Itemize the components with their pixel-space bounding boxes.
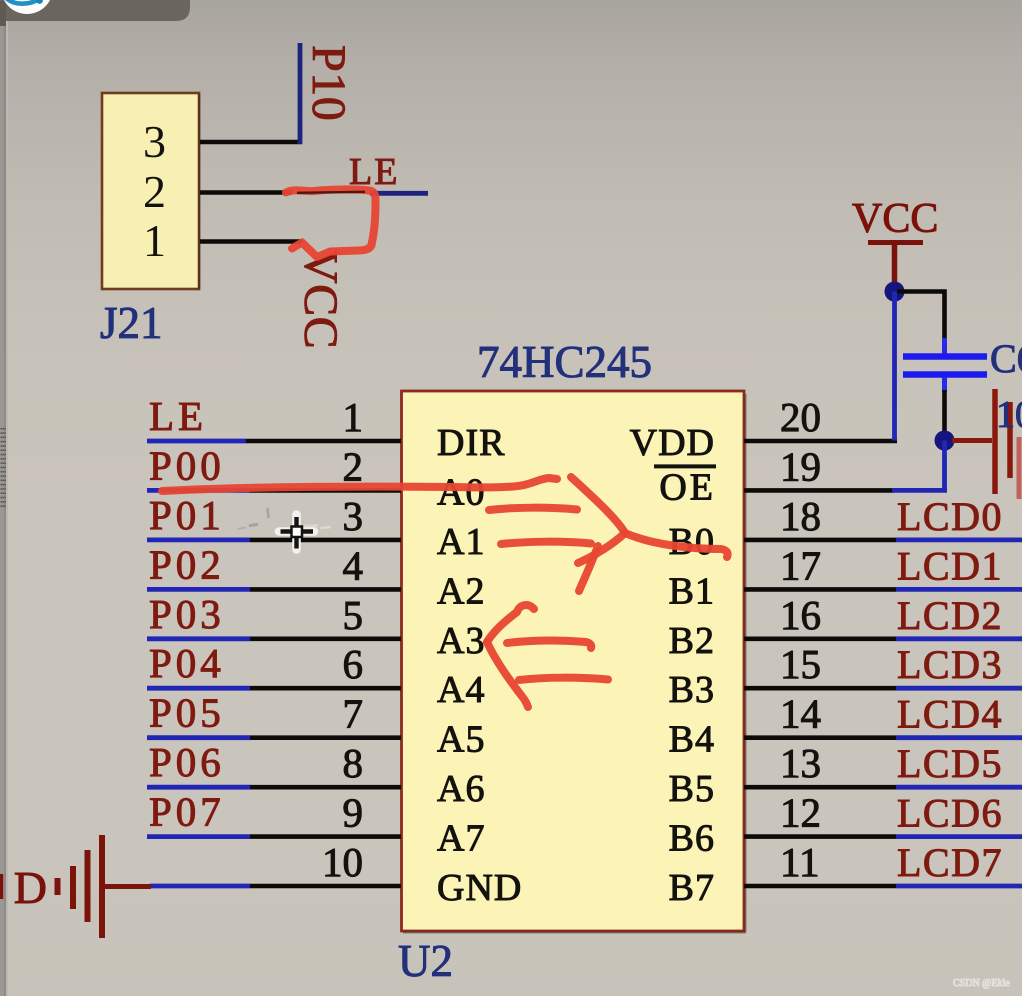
pin 11 (B7) right wire: [744, 884, 1022, 889]
connector J21 body: [102, 93, 200, 289]
pin 2 (A0) left wire: [147, 488, 401, 493]
capacitor C6: [903, 338, 987, 392]
annotation: arrow head toward B0 and stroke through B0: [571, 477, 728, 557]
capacitor C7 lead (faded): [1017, 437, 1022, 499]
top toolbar tab: [0, 0, 190, 26]
pin 20 (VDD) right wire: [744, 439, 897, 444]
mouse cursor (crosshair): [279, 515, 314, 550]
annotation: dash right of A3: [507, 641, 591, 648]
pin 17 (B1) right wire: [744, 587, 1022, 592]
wire net P10 (vertical blue): [298, 43, 303, 144]
J21 pin 3 wire: [200, 140, 302, 145]
capacitor C7 plate 2: [1007, 402, 1013, 478]
J21 pin 1 wire: [200, 239, 302, 244]
pin 5 (A3) left wire: [147, 636, 401, 641]
wire VCC node to pin 20 (blue vertical): [892, 292, 897, 441]
annotation: long red stroke over P00 wire: [162, 478, 557, 491]
annotation: arrow at A3 upper edge: [487, 605, 534, 642]
annotation: arrow tail: [579, 546, 598, 591]
wire LE (upper): [370, 191, 428, 196]
pin 18 (B0) right wire: [744, 538, 1022, 543]
pin 14 (B4) right wire: [744, 735, 1022, 740]
splitter grip dots: [1, 428, 6, 507]
wire VCC node to capacitor (black L): [897, 292, 945, 342]
pin 9 (A7) left wire: [147, 834, 401, 839]
recorder logo (white circle, blue swoosh): [1, 0, 53, 14]
pin 12 (B6) right wire: [744, 834, 1022, 839]
annotation: arrow lower edge: [578, 533, 625, 563]
window left edge strip: [0, 21, 8, 996]
ground symbol bars: [58, 835, 152, 938]
annotation: underline below A0: [489, 508, 577, 510]
power ground GND (net label, clipped): [0, 862, 47, 913]
faint eraser marks near cursor: [238, 508, 269, 529]
annotation: dash above A4: [519, 678, 608, 680]
pin 6 (A4) left wire: [147, 686, 401, 691]
wire core showing through red bracket: [297, 192, 365, 193]
wire node B down to pin 19 (blue): [942, 441, 947, 491]
pin 13 (B5) right wire: [744, 785, 1022, 790]
junction dot A (VCC node): [885, 282, 905, 302]
wire node B to C7 (dark red): [952, 438, 992, 443]
J21 pin 2 wire: [200, 190, 292, 195]
pin 19 (OE) right wire: [744, 488, 947, 493]
wire capacitor to node B (black): [942, 390, 947, 432]
pin 7 (A5) left wire: [147, 735, 401, 740]
pin 10 (GND) left wire: [150, 884, 401, 889]
pin name OE: [654, 466, 716, 508]
annotation: red bracket at J21 pins 1-2: [286, 189, 376, 257]
power port VCC (top right): [852, 196, 938, 288]
pin 4 (A2) left wire: [147, 587, 401, 592]
capacitor C7 plate 1: [992, 389, 998, 494]
J21 pin numbers 3,2,1: [143, 116, 166, 266]
pin 3 (A1) left wire: [147, 538, 401, 543]
IC U2 74HC245 body: [402, 391, 746, 933]
pin 8 (A6) left wire: [147, 785, 401, 790]
svg-text:CSDN @Ekle: CSDN @Ekle: [953, 978, 1010, 989]
annotation: arrow at A3 lower edge: [487, 642, 528, 707]
junction dot B: [935, 431, 955, 451]
pin 1 (DIR) left wire: [147, 439, 401, 444]
annotation: dash right of A1: [501, 542, 591, 544]
pin 16 (B2) right wire: [744, 636, 1022, 641]
pin 15 (B3) right wire: [744, 686, 1022, 691]
